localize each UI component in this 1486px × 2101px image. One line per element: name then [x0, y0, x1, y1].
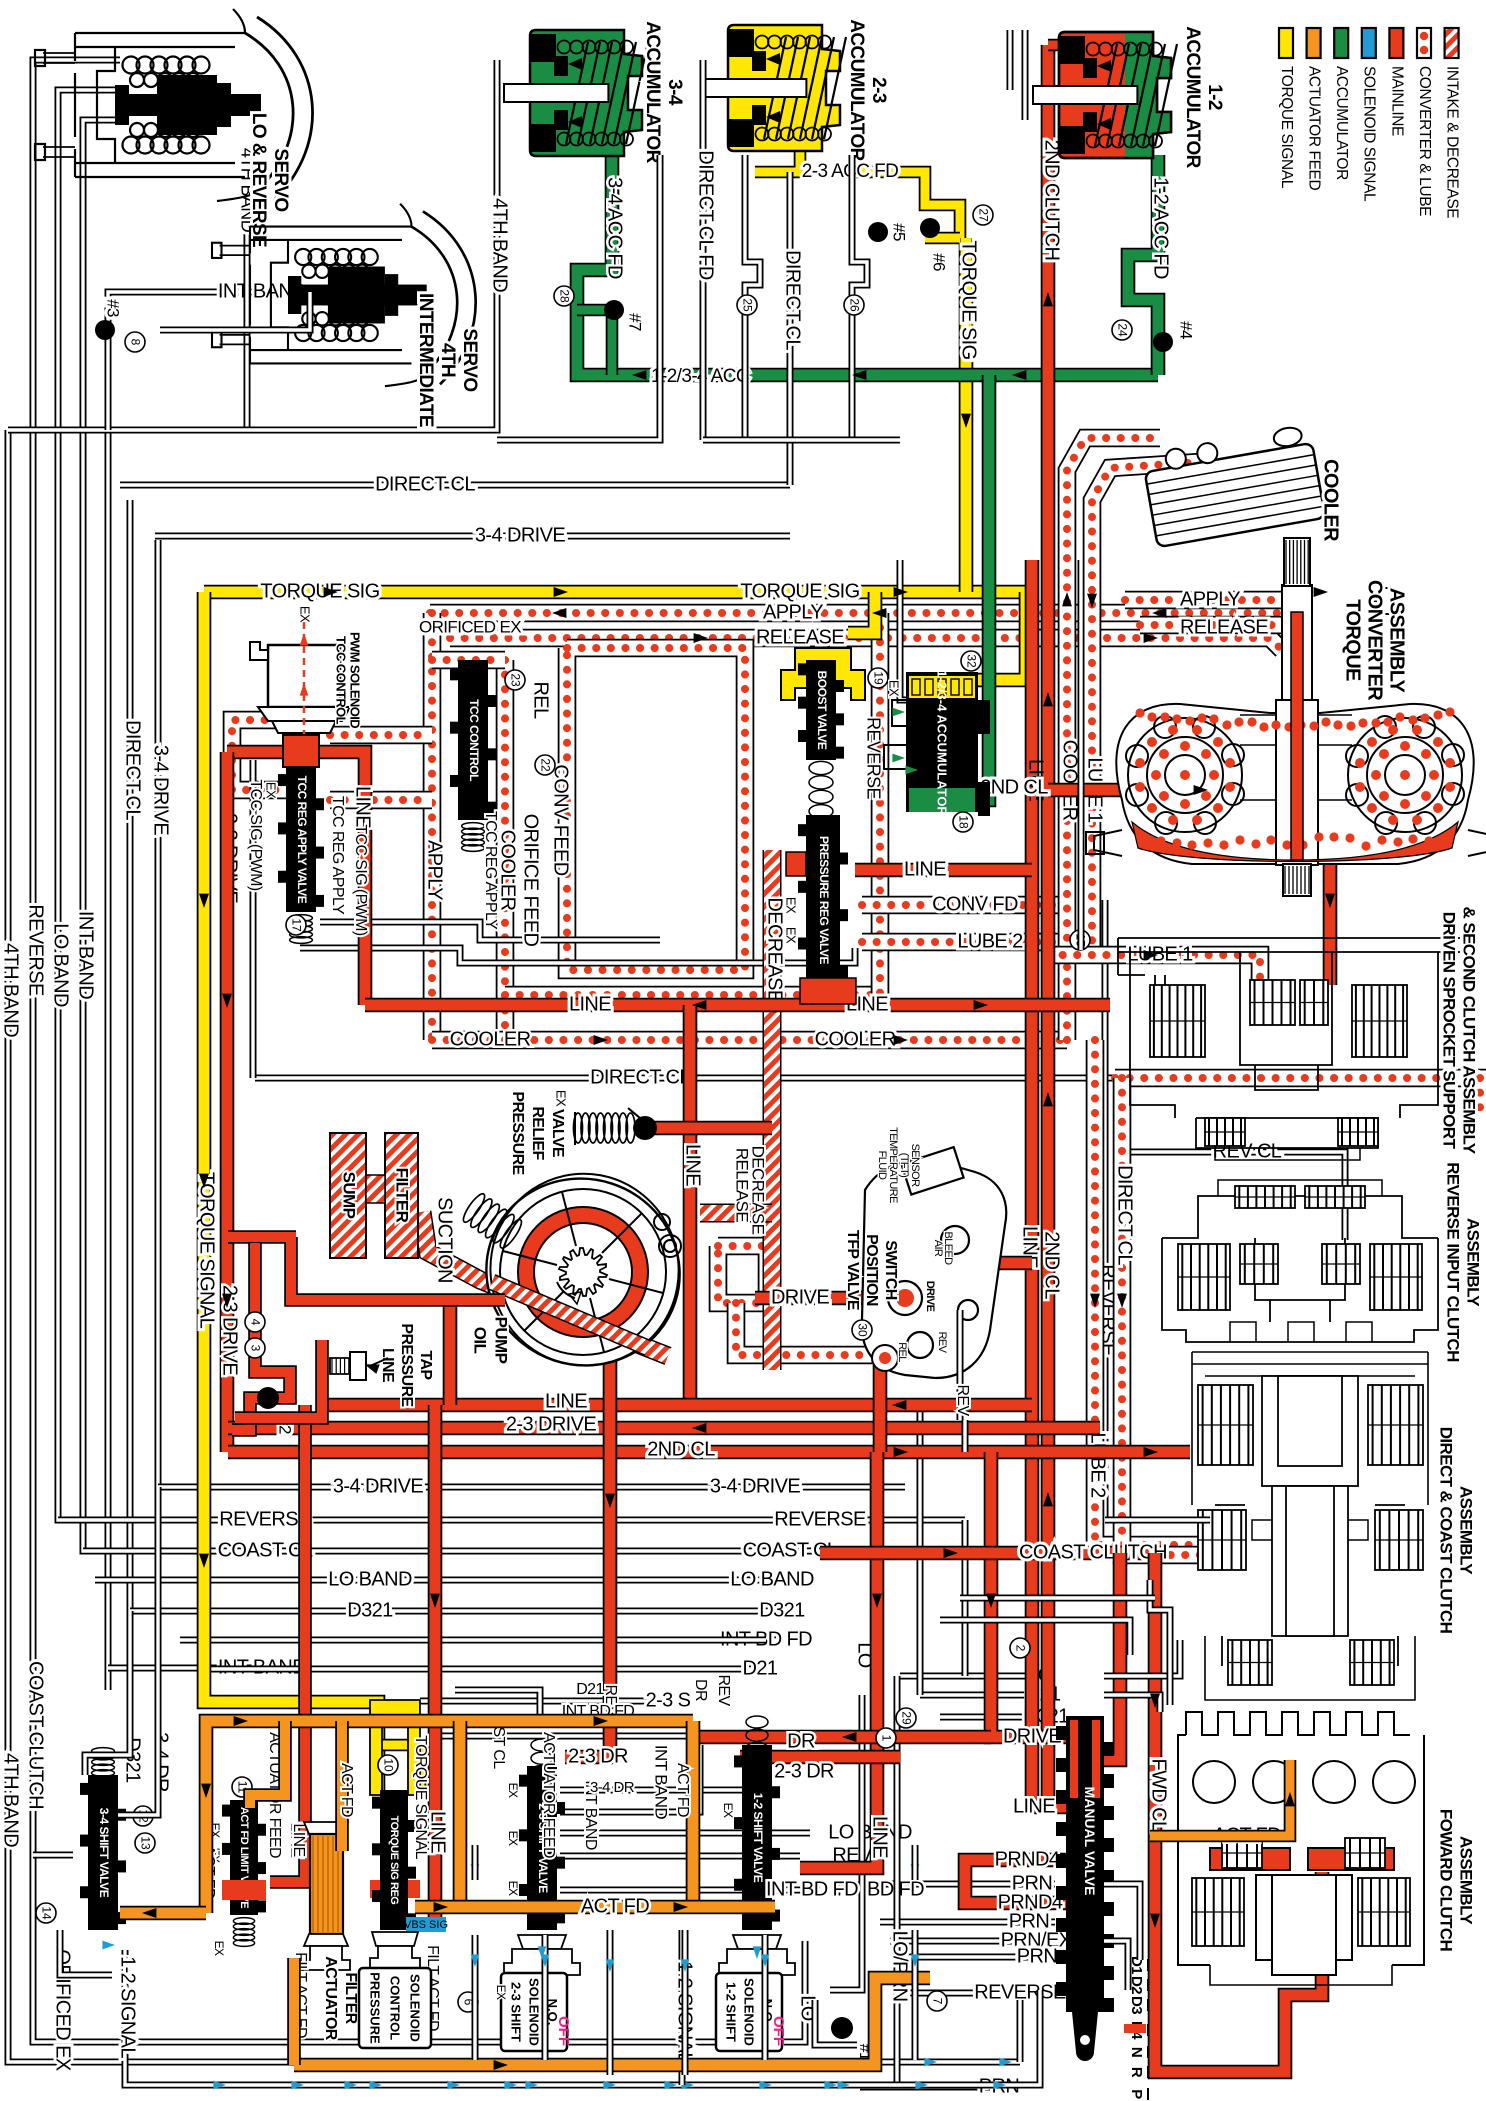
svg-text:INTERMEDIATE: INTERMEDIATE: [415, 293, 436, 427]
svg-text:D321: D321: [759, 1599, 805, 1621]
svg-text:LINE: LINE: [904, 858, 946, 880]
svg-text:TCC CONTROL: TCC CONTROL: [467, 699, 481, 781]
svg-text:2ND CLUTCH: 2ND CLUTCH: [1041, 140, 1063, 261]
svg-text:3-4 DR: 3-4 DR: [590, 1779, 635, 1796]
svg-text:D21: D21: [576, 1681, 604, 1698]
svg-text:4TH BAND: 4TH BAND: [489, 198, 511, 292]
svg-text:TORQUE SIGNAL: TORQUE SIGNAL: [196, 1172, 218, 1329]
svg-text:REL: REL: [896, 1342, 908, 1362]
svg-text:LINE: LINE: [352, 786, 374, 828]
svg-text:APPLY: APPLY: [424, 840, 446, 900]
svg-text:COOLER: COOLER: [1059, 740, 1081, 821]
svg-text:TORQUE SIG: TORQUE SIG: [958, 240, 980, 359]
svg-text:17: 17: [289, 918, 303, 932]
svg-text:RELEASE: RELEASE: [1180, 616, 1268, 638]
svg-text:PWM SOLENOID: PWM SOLENOID: [348, 632, 363, 728]
svg-text:REV: REV: [715, 1674, 732, 1706]
svg-text:BOOST VALVE: BOOST VALVE: [815, 671, 829, 750]
svg-text:PRESSURE: PRESSURE: [368, 1972, 383, 2044]
svg-text:TCC REG APPLY: TCC REG APPLY: [482, 811, 499, 930]
svg-text:1: 1: [879, 1735, 893, 1742]
svg-text:EX: EX: [784, 927, 799, 944]
svg-text:TORQUE SIG: TORQUE SIG: [740, 580, 859, 602]
svg-text:PRND4: PRND4: [998, 1891, 1063, 1913]
svg-text:#4: #4: [1177, 321, 1196, 339]
svg-text:LO BAND: LO BAND: [328, 1568, 412, 1590]
svg-text:FILTER: FILTER: [393, 1168, 412, 1223]
svg-text:APPLY: APPLY: [1180, 588, 1240, 610]
svg-text:ASSEMBLY: ASSEMBLY: [1464, 1218, 1483, 1307]
svg-text:4: 4: [248, 1319, 262, 1326]
svg-text:LINE: LINE: [290, 1823, 307, 1856]
svg-text:3-4 DRIVE: 3-4 DRIVE: [475, 524, 565, 546]
svg-text:TORQUE SIGNAL: TORQUE SIGNAL: [412, 1735, 429, 1859]
svg-text:COAST CLUTCH: COAST CLUTCH: [25, 1661, 47, 1809]
svg-text:#6: #6: [930, 253, 949, 271]
svg-text:POSITION: POSITION: [863, 1234, 880, 1306]
svg-text:DIRECT & COAST CLUTCH: DIRECT & COAST CLUTCH: [1437, 1427, 1456, 1634]
svg-text:2ND CL: 2ND CL: [980, 776, 1048, 798]
svg-text:PRESSURE: PRESSURE: [398, 1323, 415, 1407]
svg-text:EX: EX: [212, 1941, 226, 1956]
svg-text:1-2 SHIFT: 1-2 SHIFT: [723, 1982, 738, 2042]
svg-text:2-3 SHIFT: 2-3 SHIFT: [508, 1982, 523, 2042]
svg-text:CONV FD: CONV FD: [932, 893, 1018, 915]
svg-text:N: N: [1128, 2047, 1145, 2057]
svg-text:ACCUMULATOR: ACCUMULATOR: [1333, 66, 1350, 180]
svg-text:3-4 ACC FD: 3-4 ACC FD: [604, 177, 626, 279]
svg-text:SOLENOID SIGNAL: SOLENOID SIGNAL: [1361, 66, 1378, 202]
svg-text:28: 28: [557, 289, 571, 303]
svg-text:REVERSE INPUT CLUTCH: REVERSE INPUT CLUTCH: [1444, 1162, 1463, 1362]
svg-text:REL: REL: [530, 681, 552, 719]
svg-text:REV: REV: [936, 1332, 948, 1354]
svg-text:CONVERTER & LUBE: CONVERTER & LUBE: [1416, 66, 1433, 216]
svg-text:2-3: 2-3: [868, 77, 889, 103]
svg-text:TCC SIG (PWM): TCC SIG (PWM): [352, 824, 369, 936]
svg-text:1-2/3-4 ACCUMULATOR: 1-2/3-4 ACCUMULATOR: [935, 670, 950, 816]
svg-text:CONTROL: CONTROL: [388, 1976, 403, 2040]
svg-text:PRESSURE REG VALVE: PRESSURE REG VALVE: [817, 836, 831, 964]
svg-text:LUBE 2: LUBE 2: [957, 930, 1023, 952]
svg-text:D21: D21: [743, 1657, 778, 1679]
svg-text:DECREASE: DECREASE: [749, 1146, 768, 1235]
svg-text:ASSEMBLY: ASSEMBLY: [1457, 1486, 1476, 1575]
svg-text:R: R: [1128, 2067, 1145, 2078]
svg-text:EX: EX: [264, 782, 279, 799]
svg-text:22: 22: [538, 758, 552, 772]
svg-text:LUBE 2: LUBE 2: [1087, 1432, 1109, 1498]
svg-text:SOLENOID: SOLENOID: [742, 1978, 757, 2046]
svg-text:APPLY: APPLY: [763, 601, 823, 623]
svg-text:PRN: PRN: [1017, 1945, 1057, 1967]
svg-text:PUMP: PUMP: [492, 1317, 511, 1364]
svg-text:INT BAND: INT BAND: [652, 1745, 671, 1820]
svg-text:3-4 DRIVE: 3-4 DRIVE: [150, 745, 172, 835]
svg-text:D3: D3: [1128, 1996, 1145, 2014]
svg-text:BLEED: BLEED: [942, 1231, 954, 1265]
svg-text:LO BAND: LO BAND: [730, 1568, 814, 1590]
svg-text:REVERSE: REVERSE: [219, 1508, 311, 1530]
svg-text:DRIVEN SPROCKET SUPPORT: DRIVEN SPROCKET SUPPORT: [1440, 912, 1459, 1150]
svg-text:SOLENOID: SOLENOID: [527, 1978, 542, 2046]
svg-text:SWITCH: SWITCH: [882, 1240, 899, 1300]
svg-text:TAP: TAP: [417, 1350, 434, 1380]
svg-text:EX: EX: [506, 1881, 520, 1896]
svg-text:ACCUMULATOR: ACCUMULATOR: [846, 19, 867, 161]
svg-text:DRIVE: DRIVE: [771, 1286, 829, 1308]
svg-text:OFF: OFF: [555, 2016, 572, 2046]
svg-text:LINE: LINE: [682, 1144, 704, 1186]
svg-text:OIL: OIL: [471, 1327, 490, 1354]
svg-text:#5: #5: [890, 223, 909, 241]
svg-text:4TH: 4TH: [437, 343, 458, 377]
svg-text:7: 7: [930, 1998, 944, 2005]
svg-text:EX: EX: [721, 1803, 735, 1818]
svg-text:RELEASE: RELEASE: [756, 626, 844, 648]
svg-text:ASSEMBLY: ASSEMBLY: [1386, 588, 1408, 694]
svg-text:2-3 DR: 2-3 DR: [774, 1760, 834, 1782]
svg-text:DIRECT CL FD: DIRECT CL FD: [695, 150, 717, 280]
svg-text:3-4 DRIVE: 3-4 DRIVE: [333, 1475, 423, 1497]
svg-text:1-2: 1-2: [1204, 84, 1225, 110]
svg-text:REVERSE: REVERSE: [25, 904, 47, 996]
svg-text:COOLER: COOLER: [815, 1028, 896, 1050]
svg-text:LINE: LINE: [545, 1390, 587, 1412]
svg-text:LUBE 1: LUBE 1: [1127, 943, 1193, 965]
svg-text:#7: #7: [626, 313, 645, 331]
svg-text:13: 13: [138, 1836, 152, 1850]
svg-text:VALVE: VALVE: [549, 1109, 566, 1158]
svg-text:FLUID: FLUID: [876, 1151, 888, 1180]
svg-text:LINE: LINE: [379, 1348, 396, 1383]
svg-text:ACTUATOR FEED: ACTUATOR FEED: [1306, 66, 1323, 190]
svg-text:3-4: 3-4: [664, 79, 685, 106]
svg-text:SOLENOID: SOLENOID: [408, 1974, 423, 2042]
svg-text:TEMPERATURE: TEMPERATURE: [887, 1127, 899, 1203]
svg-text:2-3 DRIVE: 2-3 DRIVE: [506, 1413, 596, 1435]
svg-text:DECREASE: DECREASE: [764, 897, 786, 1002]
svg-text:24: 24: [1115, 323, 1129, 337]
svg-text:ACT FD: ACT FD: [581, 1895, 649, 1917]
svg-text:CONV FEED: CONV FEED: [550, 764, 572, 875]
svg-text:ACTUATOR: ACTUATOR: [322, 1956, 339, 2041]
svg-text:COOLER: COOLER: [450, 1028, 531, 1050]
svg-text:23: 23: [508, 673, 522, 687]
svg-text:SUMP: SUMP: [340, 1172, 359, 1219]
svg-text:TFP VALVE: TFP VALVE: [844, 1230, 861, 1311]
svg-text:26: 26: [847, 298, 861, 312]
svg-text:COOLER: COOLER: [497, 830, 519, 911]
svg-text:TCC CONTROL: TCC CONTROL: [334, 636, 349, 725]
svg-text:4TH BAND: 4TH BAND: [0, 943, 22, 1037]
svg-text:PRESSURE: PRESSURE: [509, 1091, 526, 1175]
svg-text:4TH BAND: 4TH BAND: [0, 1753, 22, 1847]
svg-text:REV: REV: [954, 1384, 971, 1416]
svg-text:2: 2: [1013, 1645, 1027, 1652]
svg-text:ORIFICED EX: ORIFICED EX: [419, 617, 521, 636]
svg-text:DRIVE: DRIVE: [1003, 1725, 1061, 1747]
svg-text:30: 30: [855, 1323, 869, 1337]
svg-text:EX: EX: [887, 680, 902, 697]
svg-text:ACTUATOR FEED: ACTUATOR FEED: [540, 1732, 557, 1858]
svg-text:COOLER: COOLER: [1320, 459, 1342, 542]
svg-text:REVERSE: REVERSE: [863, 717, 883, 799]
svg-text:DR: DR: [787, 1730, 815, 1752]
svg-text:CONVERTER: CONVERTER: [1364, 580, 1386, 701]
svg-text:D321: D321: [347, 1599, 393, 1621]
svg-text:FOWARD CLUTCH: FOWARD CLUTCH: [1437, 1809, 1456, 1952]
svg-text:DIRECT CL: DIRECT CL: [375, 473, 475, 495]
svg-text:EX: EX: [784, 897, 799, 914]
svg-text:2-3 S: 2-3 S: [646, 1689, 691, 1711]
svg-text:TCC SIG (PWM): TCC SIG (PWM): [247, 779, 264, 891]
svg-text:ACCUMULATOR: ACCUMULATOR: [1182, 26, 1203, 168]
svg-text:19: 19: [871, 671, 885, 685]
svg-text:TORQUE: TORQUE: [1342, 599, 1364, 681]
svg-text:2ND CL: 2ND CL: [647, 1438, 715, 1460]
svg-text:2ND CL: 2ND CL: [1041, 1231, 1063, 1299]
svg-text:ACCUMULATOR: ACCUMULATOR: [642, 21, 663, 163]
svg-text:INT BAND: INT BAND: [75, 911, 97, 999]
svg-text:(TFT): (TFT): [898, 1153, 910, 1177]
svg-text:PRND4: PRND4: [995, 1848, 1060, 1870]
svg-text:MANUAL VALVE: MANUAL VALVE: [1082, 1787, 1098, 1896]
svg-text:EX: EX: [554, 1090, 569, 1107]
svg-text:DIRECT CL: DIRECT CL: [590, 1066, 690, 1088]
svg-text:SERVO: SERVO: [459, 328, 480, 391]
svg-text:LO BAND: LO BAND: [50, 923, 72, 1007]
svg-text:& SECOND CLUTCH ASSEMBLY: & SECOND CLUTCH ASSEMBLY: [1460, 907, 1479, 1155]
svg-text:TCC REG APPLY VALVE: TCC REG APPLY VALVE: [295, 776, 309, 904]
svg-text:LO/PRN: LO/PRN: [889, 1931, 911, 2002]
svg-text:MAINLINE: MAINLINE: [1388, 66, 1405, 136]
svg-text:14: 14: [39, 1906, 53, 1920]
svg-text:DIRECT CL: DIRECT CL: [122, 720, 144, 820]
svg-text:10: 10: [381, 1758, 395, 1772]
svg-text:1-2 ACC FD: 1-2 ACC FD: [1150, 177, 1172, 279]
svg-text:OFF: OFF: [770, 2016, 787, 2046]
svg-text:EX: EX: [506, 1783, 520, 1798]
svg-text:EX: EX: [506, 1831, 520, 1846]
svg-text:LINE: LINE: [427, 1811, 449, 1853]
svg-text:SENSOR: SENSOR: [909, 1144, 921, 1188]
svg-text:2-3 DR: 2-3 DR: [568, 1745, 628, 1767]
svg-text:ACT FD: ACT FD: [674, 1763, 691, 1817]
svg-text:SUCTION: SUCTION: [434, 1197, 456, 1283]
svg-text:RELIEF: RELIEF: [529, 1106, 546, 1160]
svg-text:3-4 DRIVE: 3-4 DRIVE: [710, 1475, 800, 1497]
svg-text:FWD CL: FWD CL: [1148, 1758, 1170, 1832]
svg-text:TORQUE SIG: TORQUE SIG: [260, 580, 379, 602]
svg-text:REVERSE: REVERSE: [774, 1508, 866, 1530]
svg-text:EX: EX: [298, 606, 313, 623]
svg-text:TORQUE SIG REG: TORQUE SIG REG: [388, 1816, 400, 1905]
svg-text:ORIFICE FEED: ORIFICE FEED: [520, 814, 542, 947]
svg-text:P: P: [1128, 2089, 1145, 2099]
svg-text:INTAKE & DECREASE: INTAKE & DECREASE: [1444, 66, 1461, 218]
svg-text:18: 18: [956, 815, 970, 829]
svg-text:LINE: LINE: [1013, 1795, 1055, 1817]
svg-text:DR: DR: [692, 1679, 709, 1701]
svg-text:REVERSE: REVERSE: [974, 1981, 1066, 2003]
svg-text:27: 27: [976, 208, 990, 222]
svg-text:TCC REG APPLY: TCC REG APPLY: [329, 796, 346, 915]
svg-text:1-2 SIGNAL: 1-2 SIGNAL: [117, 1956, 139, 2058]
svg-text:8: 8: [128, 339, 142, 346]
svg-text:25: 25: [740, 298, 754, 312]
svg-text:COAST CLUTCH: COAST CLUTCH: [1019, 1541, 1167, 1563]
svg-text:ASSEMBLY: ASSEMBLY: [1457, 1836, 1476, 1925]
svg-text:29: 29: [899, 1711, 913, 1725]
svg-text:INT BD FD: INT BD FD: [766, 1878, 858, 1900]
svg-text:LINE: LINE: [869, 1816, 891, 1858]
svg-text:EX: EX: [494, 1985, 508, 2000]
svg-text:32: 32: [964, 654, 978, 668]
svg-text:3: 3: [248, 1345, 262, 1352]
svg-text:ACT FD: ACT FD: [338, 1763, 355, 1817]
svg-text:DIRECT CL: DIRECT CL: [1114, 1165, 1136, 1265]
svg-text:DRIVE: DRIVE: [924, 1281, 936, 1312]
svg-text:VBS SIG: VBS SIG: [404, 1919, 448, 1931]
svg-text:LINE: LINE: [569, 993, 611, 1015]
svg-text:FILTER: FILTER: [342, 1972, 359, 2024]
svg-text:1-2 SHIFT VALVE: 1-2 SHIFT VALVE: [751, 1793, 765, 1883]
svg-text:SERVO: SERVO: [270, 148, 291, 211]
svg-text:3-4 SHIFT VALVE: 3-4 SHIFT VALVE: [97, 1808, 111, 1898]
svg-text:TORQUE SIGNAL: TORQUE SIGNAL: [1278, 66, 1295, 189]
svg-text:#3: #3: [104, 299, 123, 317]
svg-text:DIRECT CL: DIRECT CL: [782, 250, 804, 350]
